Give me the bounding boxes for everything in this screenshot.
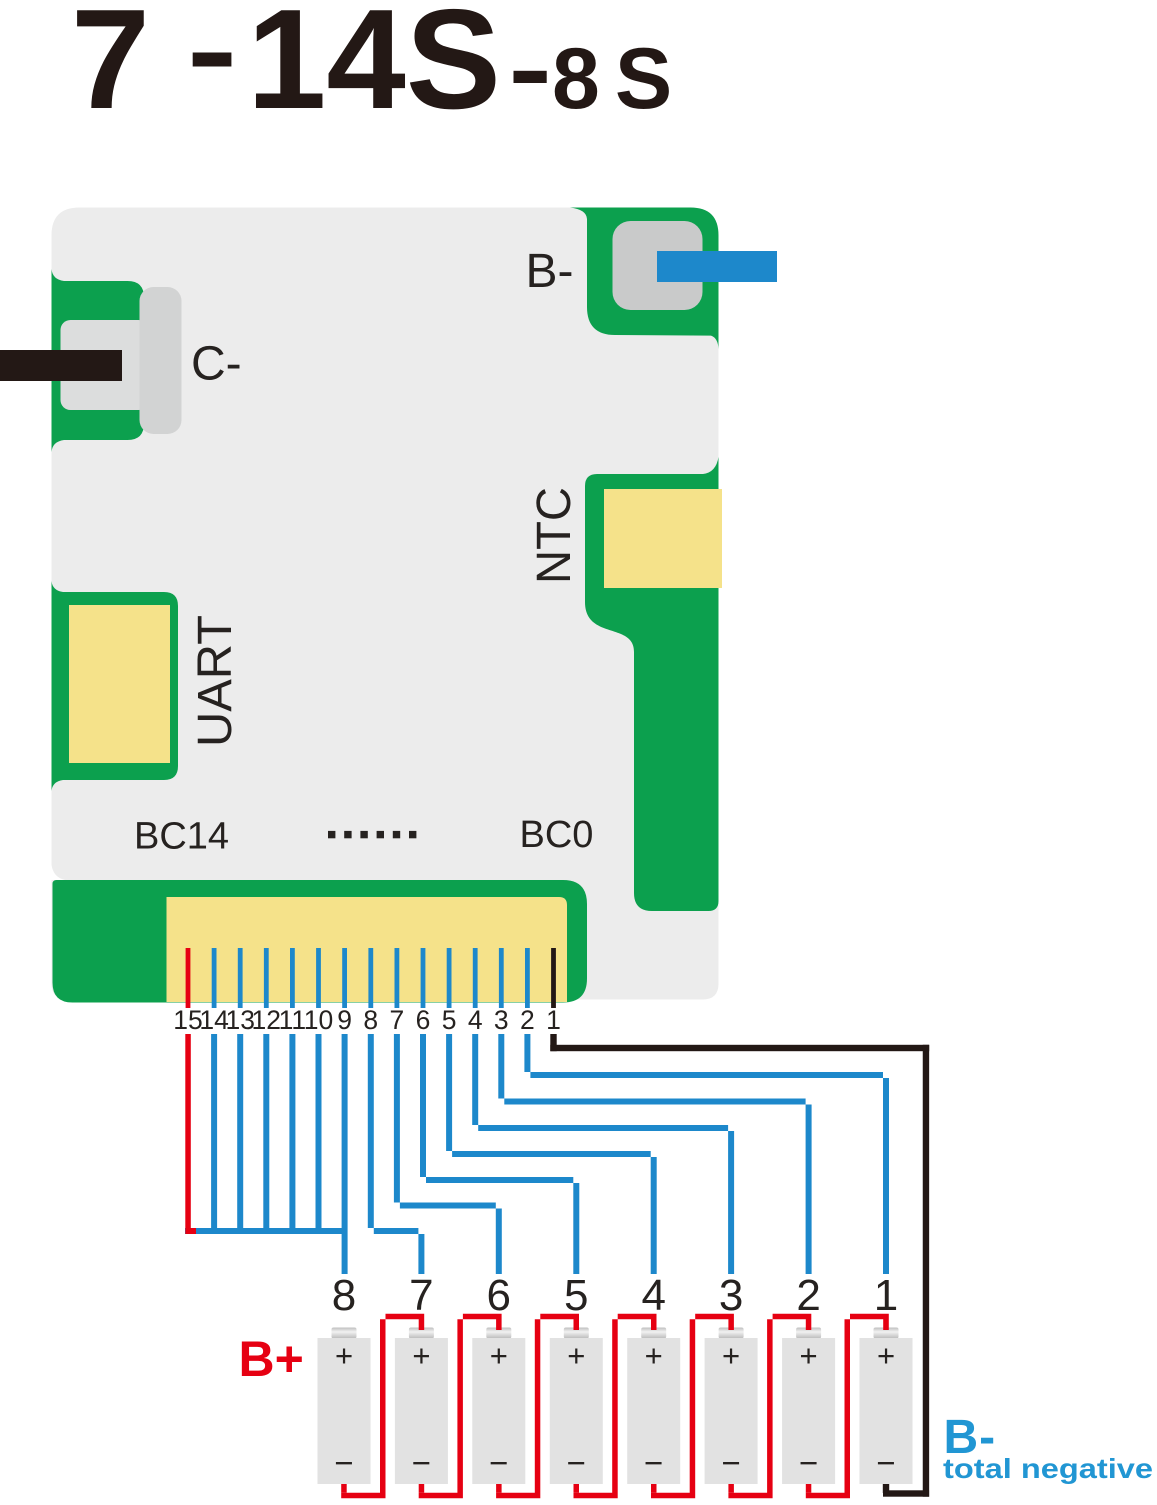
wire: pin 5 blue to battery 4: [446, 1034, 657, 1274]
green bottom connector strip: [53, 880, 588, 1003]
svg-text:8: 8: [332, 1271, 356, 1320]
svg-text:4: 4: [468, 1005, 483, 1035]
svg-text:+: +: [567, 1338, 585, 1373]
wire: pin 8 blue to battery 7: [368, 1034, 425, 1274]
blue wire B-: [657, 251, 777, 282]
svg-text:+: +: [800, 1338, 818, 1373]
svg-text:6: 6: [416, 1005, 431, 1035]
red series link battery 5 to battery 4: [574, 1484, 580, 1493]
pin 12 top stub: [264, 948, 269, 1008]
svg-text:7: 7: [71, 0, 150, 139]
svg-text:1: 1: [874, 1271, 898, 1320]
svg-text:10: 10: [304, 1005, 333, 1035]
pin 2 top stub: [525, 948, 530, 1008]
wire: pin 12 blue down to bus: [263, 1034, 269, 1234]
svg-text:14S: 14S: [247, 0, 501, 139]
red series link battery 2 to battery 1: [806, 1484, 812, 1493]
svg-text:2: 2: [520, 1005, 535, 1035]
svg-text:−: −: [644, 1444, 663, 1481]
green pad area B- (top-right): [570, 208, 719, 350]
svg-text:4: 4: [641, 1271, 665, 1320]
BMS board substrate: [52, 208, 719, 1000]
pin 4 top stub: [473, 948, 478, 1008]
svg-text:−: −: [334, 1444, 353, 1481]
pin 13 top stub: [238, 948, 243, 1008]
wire: pin 4 blue to battery 3: [472, 1034, 734, 1274]
svg-text:3: 3: [719, 1271, 743, 1320]
wire: bus to battery 8 (ties pins 10-15): [185, 1228, 347, 1234]
svg-text:−: −: [567, 1444, 586, 1481]
pin 1 top stub: [551, 948, 556, 1008]
gray pad C- inner: [61, 320, 149, 410]
wire: pin 9 blue straight down to battery 8: [342, 1034, 348, 1274]
svg-text:14: 14: [199, 1005, 228, 1035]
svg-text:1: 1: [546, 1005, 561, 1035]
svg-text:15: 15: [173, 1005, 202, 1035]
svg-text:+: +: [645, 1338, 663, 1373]
wire: pin 7 blue to battery 6: [394, 1034, 502, 1274]
pin 8 top stub: [368, 948, 373, 1008]
black wire C-: [0, 350, 122, 381]
svg-text:12: 12: [252, 1005, 281, 1035]
svg-text:BC0: BC0: [520, 814, 594, 856]
wire: pin 11 blue down to bus: [289, 1034, 295, 1234]
yellow bottom pin connector: [167, 897, 568, 1002]
pin 9 top stub: [342, 948, 347, 1008]
svg-text:C-: C-: [191, 338, 242, 391]
svg-text:5: 5: [564, 1271, 588, 1320]
wire: pin 6 blue to battery 5: [420, 1034, 579, 1274]
svg-text:6: 6: [487, 1271, 511, 1320]
yellow connector UART: [69, 605, 170, 763]
svg-text:11: 11: [279, 1005, 307, 1035]
wire: pin 13 blue down to bus: [237, 1034, 243, 1234]
svg-text:−: −: [489, 1444, 508, 1481]
svg-text:+: +: [722, 1338, 740, 1373]
pin 14 top stub: [212, 948, 217, 1008]
gray pad C- outer bar: [140, 287, 182, 434]
svg-text:13: 13: [225, 1005, 254, 1035]
wire: pin 3 blue to battery 2: [498, 1034, 811, 1274]
wire: pin 15 red: [185, 1034, 196, 1234]
svg-text:B-: B-: [526, 245, 574, 298]
svg-text:7: 7: [390, 1005, 405, 1035]
board edge notch (white wedge): [52, 865, 66, 880]
svg-text:2: 2: [796, 1271, 820, 1320]
svg-text:5: 5: [442, 1005, 457, 1035]
green pad area NTC / right column: [585, 457, 719, 911]
wire: battery1 minus stub black: [883, 1484, 889, 1493]
pin 3 top stub: [499, 948, 504, 1008]
svg-text:+: +: [412, 1338, 430, 1373]
red series link battery 8 to battery 7: [341, 1484, 347, 1493]
red series link battery 4 to battery 3: [651, 1484, 657, 1493]
svg-text:NTC: NTC: [528, 487, 581, 584]
pin 10 top stub: [316, 948, 321, 1008]
svg-text:+: +: [490, 1338, 508, 1373]
gray pad B-: [613, 221, 703, 310]
svg-text:−: −: [799, 1444, 818, 1481]
pin 7 top stub: [395, 948, 400, 1008]
svg-text:9: 9: [337, 1005, 352, 1035]
pin 15 top stub: [186, 948, 191, 1008]
svg-text:B+: B+: [239, 1331, 304, 1387]
svg-text:total negative: total negative: [943, 1453, 1153, 1484]
svg-text:8S: 8S: [552, 31, 687, 127]
green pad area UART: [52, 581, 179, 791]
svg-text:−: −: [876, 1444, 895, 1481]
svg-text:7: 7: [409, 1271, 433, 1320]
red series link battery 3 to battery 2: [728, 1484, 734, 1493]
wire: pin 1 black to right side: [550, 1034, 929, 1497]
svg-text:3: 3: [494, 1005, 509, 1035]
pin 5 top stub: [447, 948, 452, 1008]
wire: pin 10 blue down to bus: [316, 1034, 322, 1234]
svg-text:−: −: [412, 1444, 431, 1481]
dots ......: [328, 831, 335, 838]
svg-text:UART: UART: [189, 615, 242, 747]
pin 11 top stub: [290, 948, 295, 1008]
green pad area C- (left edge): [52, 269, 145, 452]
svg-text:BC14: BC14: [134, 816, 229, 858]
pin 6 top stub: [421, 948, 426, 1008]
red series link battery 7 to battery 6: [419, 1484, 425, 1493]
wire: pin 14 blue down to bus: [211, 1034, 217, 1234]
svg-text:−: −: [721, 1444, 740, 1481]
red series link battery 6 to battery 5: [496, 1484, 502, 1493]
yellow connector NTC: [604, 489, 722, 588]
wire: pin 2 blue to battery 1: [524, 1034, 889, 1274]
svg-text:+: +: [877, 1338, 895, 1373]
svg-text:8: 8: [363, 1005, 378, 1035]
svg-text:+: +: [335, 1338, 353, 1373]
